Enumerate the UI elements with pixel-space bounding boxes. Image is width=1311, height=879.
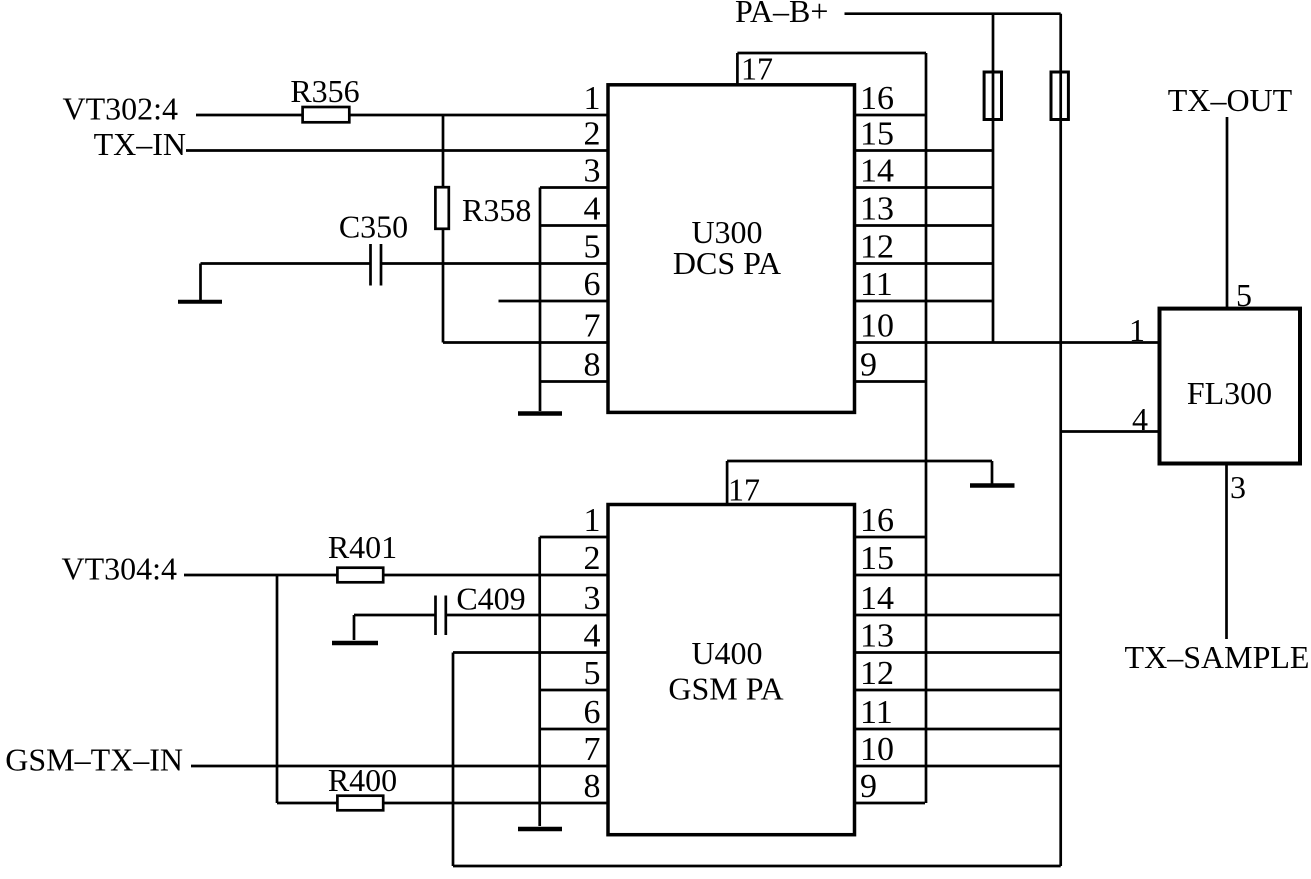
svg-text:3: 3 xyxy=(584,153,601,190)
svg-text:5: 5 xyxy=(584,655,601,692)
svg-text:17: 17 xyxy=(741,51,773,87)
svg-text:TX–SAMPLE: TX–SAMPLE xyxy=(1125,639,1310,675)
svg-text:9: 9 xyxy=(860,347,877,384)
svg-text:TX–OUT: TX–OUT xyxy=(1168,82,1293,118)
svg-text:16: 16 xyxy=(860,502,894,539)
svg-text:GSM PA: GSM PA xyxy=(668,670,783,706)
svg-text:7: 7 xyxy=(584,308,601,345)
svg-text:R358: R358 xyxy=(462,192,531,228)
svg-text:2: 2 xyxy=(584,540,601,577)
svg-text:17: 17 xyxy=(728,472,760,508)
svg-text:11: 11 xyxy=(860,694,893,731)
svg-text:6: 6 xyxy=(584,266,601,303)
svg-text:R400: R400 xyxy=(328,762,397,798)
svg-text:5: 5 xyxy=(584,229,601,266)
svg-text:14: 14 xyxy=(860,153,894,190)
svg-text:R356: R356 xyxy=(290,73,359,109)
svg-text:VT302:4: VT302:4 xyxy=(62,91,178,127)
svg-text:13: 13 xyxy=(860,618,894,655)
svg-text:R401: R401 xyxy=(328,529,397,565)
svg-text:C409: C409 xyxy=(456,580,525,616)
svg-text:6: 6 xyxy=(584,694,601,731)
svg-text:PA–B+: PA–B+ xyxy=(735,0,828,29)
svg-text:U400: U400 xyxy=(691,635,762,671)
svg-text:C350: C350 xyxy=(339,208,408,244)
svg-text:10: 10 xyxy=(860,308,894,345)
svg-text:2: 2 xyxy=(584,116,601,153)
svg-text:13: 13 xyxy=(860,191,894,228)
svg-text:4: 4 xyxy=(584,191,601,228)
svg-text:15: 15 xyxy=(860,116,894,153)
svg-text:12: 12 xyxy=(860,229,894,266)
svg-text:3: 3 xyxy=(584,580,601,617)
svg-text:TX–IN: TX–IN xyxy=(94,126,186,162)
svg-text:FL300: FL300 xyxy=(1187,375,1272,411)
svg-text:8: 8 xyxy=(584,768,601,805)
svg-text:3: 3 xyxy=(1230,469,1246,505)
svg-text:5: 5 xyxy=(1236,277,1252,313)
svg-text:4: 4 xyxy=(584,618,601,655)
svg-text:16: 16 xyxy=(860,80,894,117)
svg-text:14: 14 xyxy=(860,580,894,617)
svg-text:GSM–TX–IN: GSM–TX–IN xyxy=(5,742,183,778)
svg-text:1: 1 xyxy=(584,80,601,117)
svg-text:VT304:4: VT304:4 xyxy=(61,551,177,587)
svg-text:11: 11 xyxy=(860,266,893,303)
svg-text:1: 1 xyxy=(584,502,601,539)
svg-text:9: 9 xyxy=(860,768,877,805)
svg-text:8: 8 xyxy=(584,347,601,384)
svg-text:4: 4 xyxy=(1132,401,1148,437)
svg-text:1: 1 xyxy=(1129,312,1145,348)
svg-text:10: 10 xyxy=(860,731,894,768)
svg-text:15: 15 xyxy=(860,540,894,577)
svg-text:7: 7 xyxy=(584,731,601,768)
svg-text:12: 12 xyxy=(860,655,894,692)
svg-text:DCS PA: DCS PA xyxy=(673,245,781,281)
